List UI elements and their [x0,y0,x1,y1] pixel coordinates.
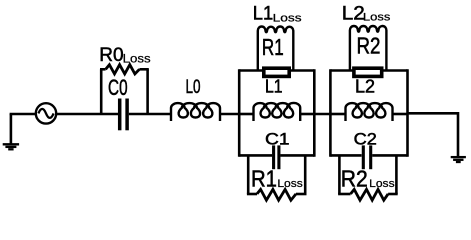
node: resonator 2 left rail [329,69,332,157]
svg-text:Loss: Loss [273,13,303,25]
svg-text:Loss: Loss [363,11,391,23]
svg-text:R2: R2 [357,33,381,59]
wire L0 to resonator 1 [220,113,241,116]
capacitor C1 [274,145,279,169]
wire main through res1 [239,113,314,116]
AC source V1 [36,103,56,123]
svg-text:C2: C2 [354,129,377,148]
resistor R2_Loss (loop under C2) [338,155,398,200]
svg-text:Loss: Loss [123,51,151,65]
label R2_Loss [341,165,395,191]
inductor L0 [171,103,220,121]
wire C0 to L0 [129,113,171,116]
node: resonator 2 right rail [406,69,409,157]
resistor R0_Loss (parallel loop over C0) [100,65,149,114]
wire ground to source [10,113,37,116]
label L2_Loss [342,2,391,24]
capacitor C0 [120,99,127,131]
label R0_Loss [99,44,150,66]
label L1_Loss [253,2,302,24]
svg-text:R0: R0 [99,44,123,66]
resistor R1_Loss (loop under C1) [247,155,307,200]
inductor L2 [346,103,393,121]
wire res2 to right ground [408,112,459,157]
svg-text:Loss: Loss [369,178,395,190]
svg-text:L2: L2 [342,2,365,24]
resistor R1 (box symbol) [264,68,289,76]
inductor L2_Loss (crown over R2 box) [350,26,387,72]
wire res1 to res2 [314,113,331,116]
svg-text:C0: C0 [108,75,128,100]
inductor L1 [254,103,301,121]
capacitor C2 [363,145,370,169]
wire bottom edge r1 [239,154,314,157]
ground (right) [451,157,466,162]
svg-text:L1: L1 [253,2,273,24]
svg-text:C1: C1 [265,129,290,148]
node: resonator 1 left rail [238,69,241,157]
svg-text:L0: L0 [186,77,201,98]
ground (left) [3,114,19,149]
wire top edge r1 [239,69,314,72]
svg-text:Loss: Loss [277,178,303,190]
resistor R2 (box symbol) [354,68,382,76]
wire bottom edge r2 [330,154,407,157]
svg-text:L2: L2 [355,77,375,97]
label R1_Loss [251,165,303,191]
wire main through res2 [330,113,407,116]
node: resonator 1 right rail [313,69,316,157]
svg-text:L1: L1 [265,77,283,97]
svg-text:R1: R1 [262,34,284,60]
inductor L1_Loss (crown over R1 box) [258,26,294,71]
wire source to C0 [56,113,118,116]
wire top edge r2 [330,69,407,72]
